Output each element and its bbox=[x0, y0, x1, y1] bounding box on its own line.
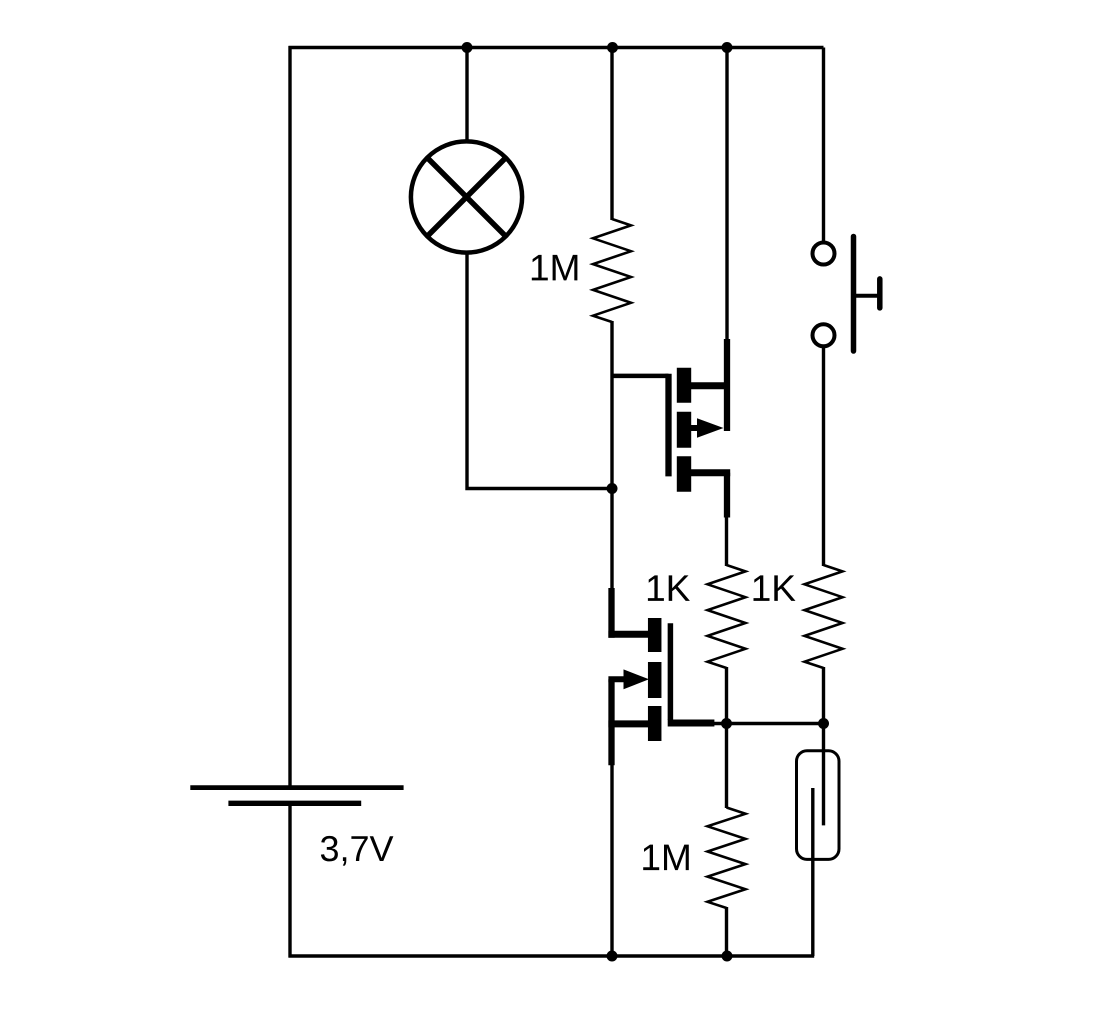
Q1 gate wire tap bbox=[611, 374, 669, 379]
vibration sensor S2 bottom electrode bbox=[811, 788, 814, 956]
label R2 1K bbox=[648, 575, 690, 601]
Q2 upper (drain) lead bbox=[608, 588, 614, 638]
node junction bottom rail / Q2 source bbox=[607, 951, 618, 962]
wire top rail to Q1 bbox=[725, 48, 728, 341]
wire top rail to switch bbox=[822, 48, 825, 244]
wire bottom rail bbox=[289, 954, 815, 958]
wire R4 bottom to rail bbox=[725, 907, 728, 956]
label 3,7V bbox=[321, 836, 394, 866]
pushbutton S1 top contact bbox=[813, 243, 835, 265]
node junction lamp wire / 1M / Q2 drain bbox=[607, 483, 618, 494]
pushbutton S1 actuator bar bbox=[851, 237, 857, 352]
wire node to Q2 drain lead bbox=[610, 489, 613, 591]
wire 1M top lead bbox=[610, 48, 613, 221]
Q1 lower lead bbox=[724, 473, 730, 518]
Q2 body arrow bbox=[608, 676, 626, 682]
node junction R3 / sensor bbox=[818, 718, 829, 729]
wire lamp top bbox=[465, 48, 468, 144]
battery B1 negative plate bbox=[228, 801, 361, 806]
node junction top rail / Q1 drain wire bbox=[722, 42, 733, 53]
Q2 channel bar top (drain) bbox=[648, 618, 662, 652]
pushbutton S1 actuator stem bbox=[854, 294, 879, 298]
resistor R3 1K (right) bbox=[805, 565, 843, 668]
wire lamp bottom bbox=[467, 251, 612, 489]
wire Q1 drain to R2 bbox=[725, 517, 728, 566]
label R4 1M bbox=[643, 845, 689, 871]
transistor Q2 NMOS bbox=[608, 588, 714, 765]
Q2 source connection line bbox=[608, 720, 652, 727]
wire Q2 source to bottom rail bbox=[610, 765, 613, 956]
Q1 gate plate bbox=[665, 374, 671, 477]
Q1 channel bar top (source) bbox=[677, 368, 691, 403]
vibration sensor S2 body bbox=[797, 751, 840, 860]
lamp L1 bbox=[411, 141, 522, 252]
Q2 gate plate bbox=[668, 623, 674, 720]
Q1 channel bar bottom (drain) bbox=[677, 456, 691, 491]
node junction top rail / lamp bbox=[462, 42, 473, 53]
label R3 1K bbox=[754, 575, 796, 601]
node junction bottom rail / R4 bbox=[722, 951, 733, 962]
Q2 lower (source) lead bbox=[608, 679, 614, 765]
resistor R4 1M (bottom) bbox=[708, 808, 746, 909]
wire gate node horizontal bbox=[713, 722, 824, 725]
wire R3 bottom to node bbox=[822, 667, 825, 724]
battery B1 positive plate bbox=[190, 785, 403, 790]
wire top rail bbox=[289, 46, 824, 50]
label R1 1M bbox=[532, 255, 578, 281]
pushbutton S1 bottom contact bbox=[813, 324, 835, 346]
Q2 gate connection line bbox=[668, 720, 715, 727]
resistor R2 1K (left) bbox=[708, 565, 746, 668]
wire R2 bottom to node bbox=[725, 667, 728, 724]
Q2 channel bar bottom (source) bbox=[648, 706, 662, 741]
wire node to R4 bbox=[725, 724, 728, 809]
Q1 drain connection line bbox=[684, 469, 730, 476]
resistor R1 1M (top) bbox=[593, 219, 631, 322]
wire 1M bottom to node bbox=[610, 321, 613, 489]
Q1 body arrow bbox=[691, 425, 701, 431]
Q1 source connection line bbox=[684, 382, 727, 389]
node junction top rail / 1M bbox=[607, 42, 618, 53]
pushbutton S1 actuator button cap bbox=[877, 279, 883, 308]
wire switch to R3 bbox=[822, 347, 825, 567]
wire battery positive (left vertical top) bbox=[288, 46, 291, 788]
Q1 upper lead bbox=[724, 339, 730, 431]
node junction gate / R2 / R4 bbox=[721, 718, 732, 729]
vibration sensor S2 top electrode bbox=[822, 724, 825, 826]
Q1 channel bar middle (body) bbox=[677, 412, 691, 448]
transistor Q1 PMOS bbox=[611, 339, 730, 518]
Q2 channel bar middle (body) bbox=[648, 662, 662, 698]
wire battery negative (left vertical bottom) bbox=[288, 803, 291, 958]
Q2 drain connection line bbox=[608, 631, 652, 638]
